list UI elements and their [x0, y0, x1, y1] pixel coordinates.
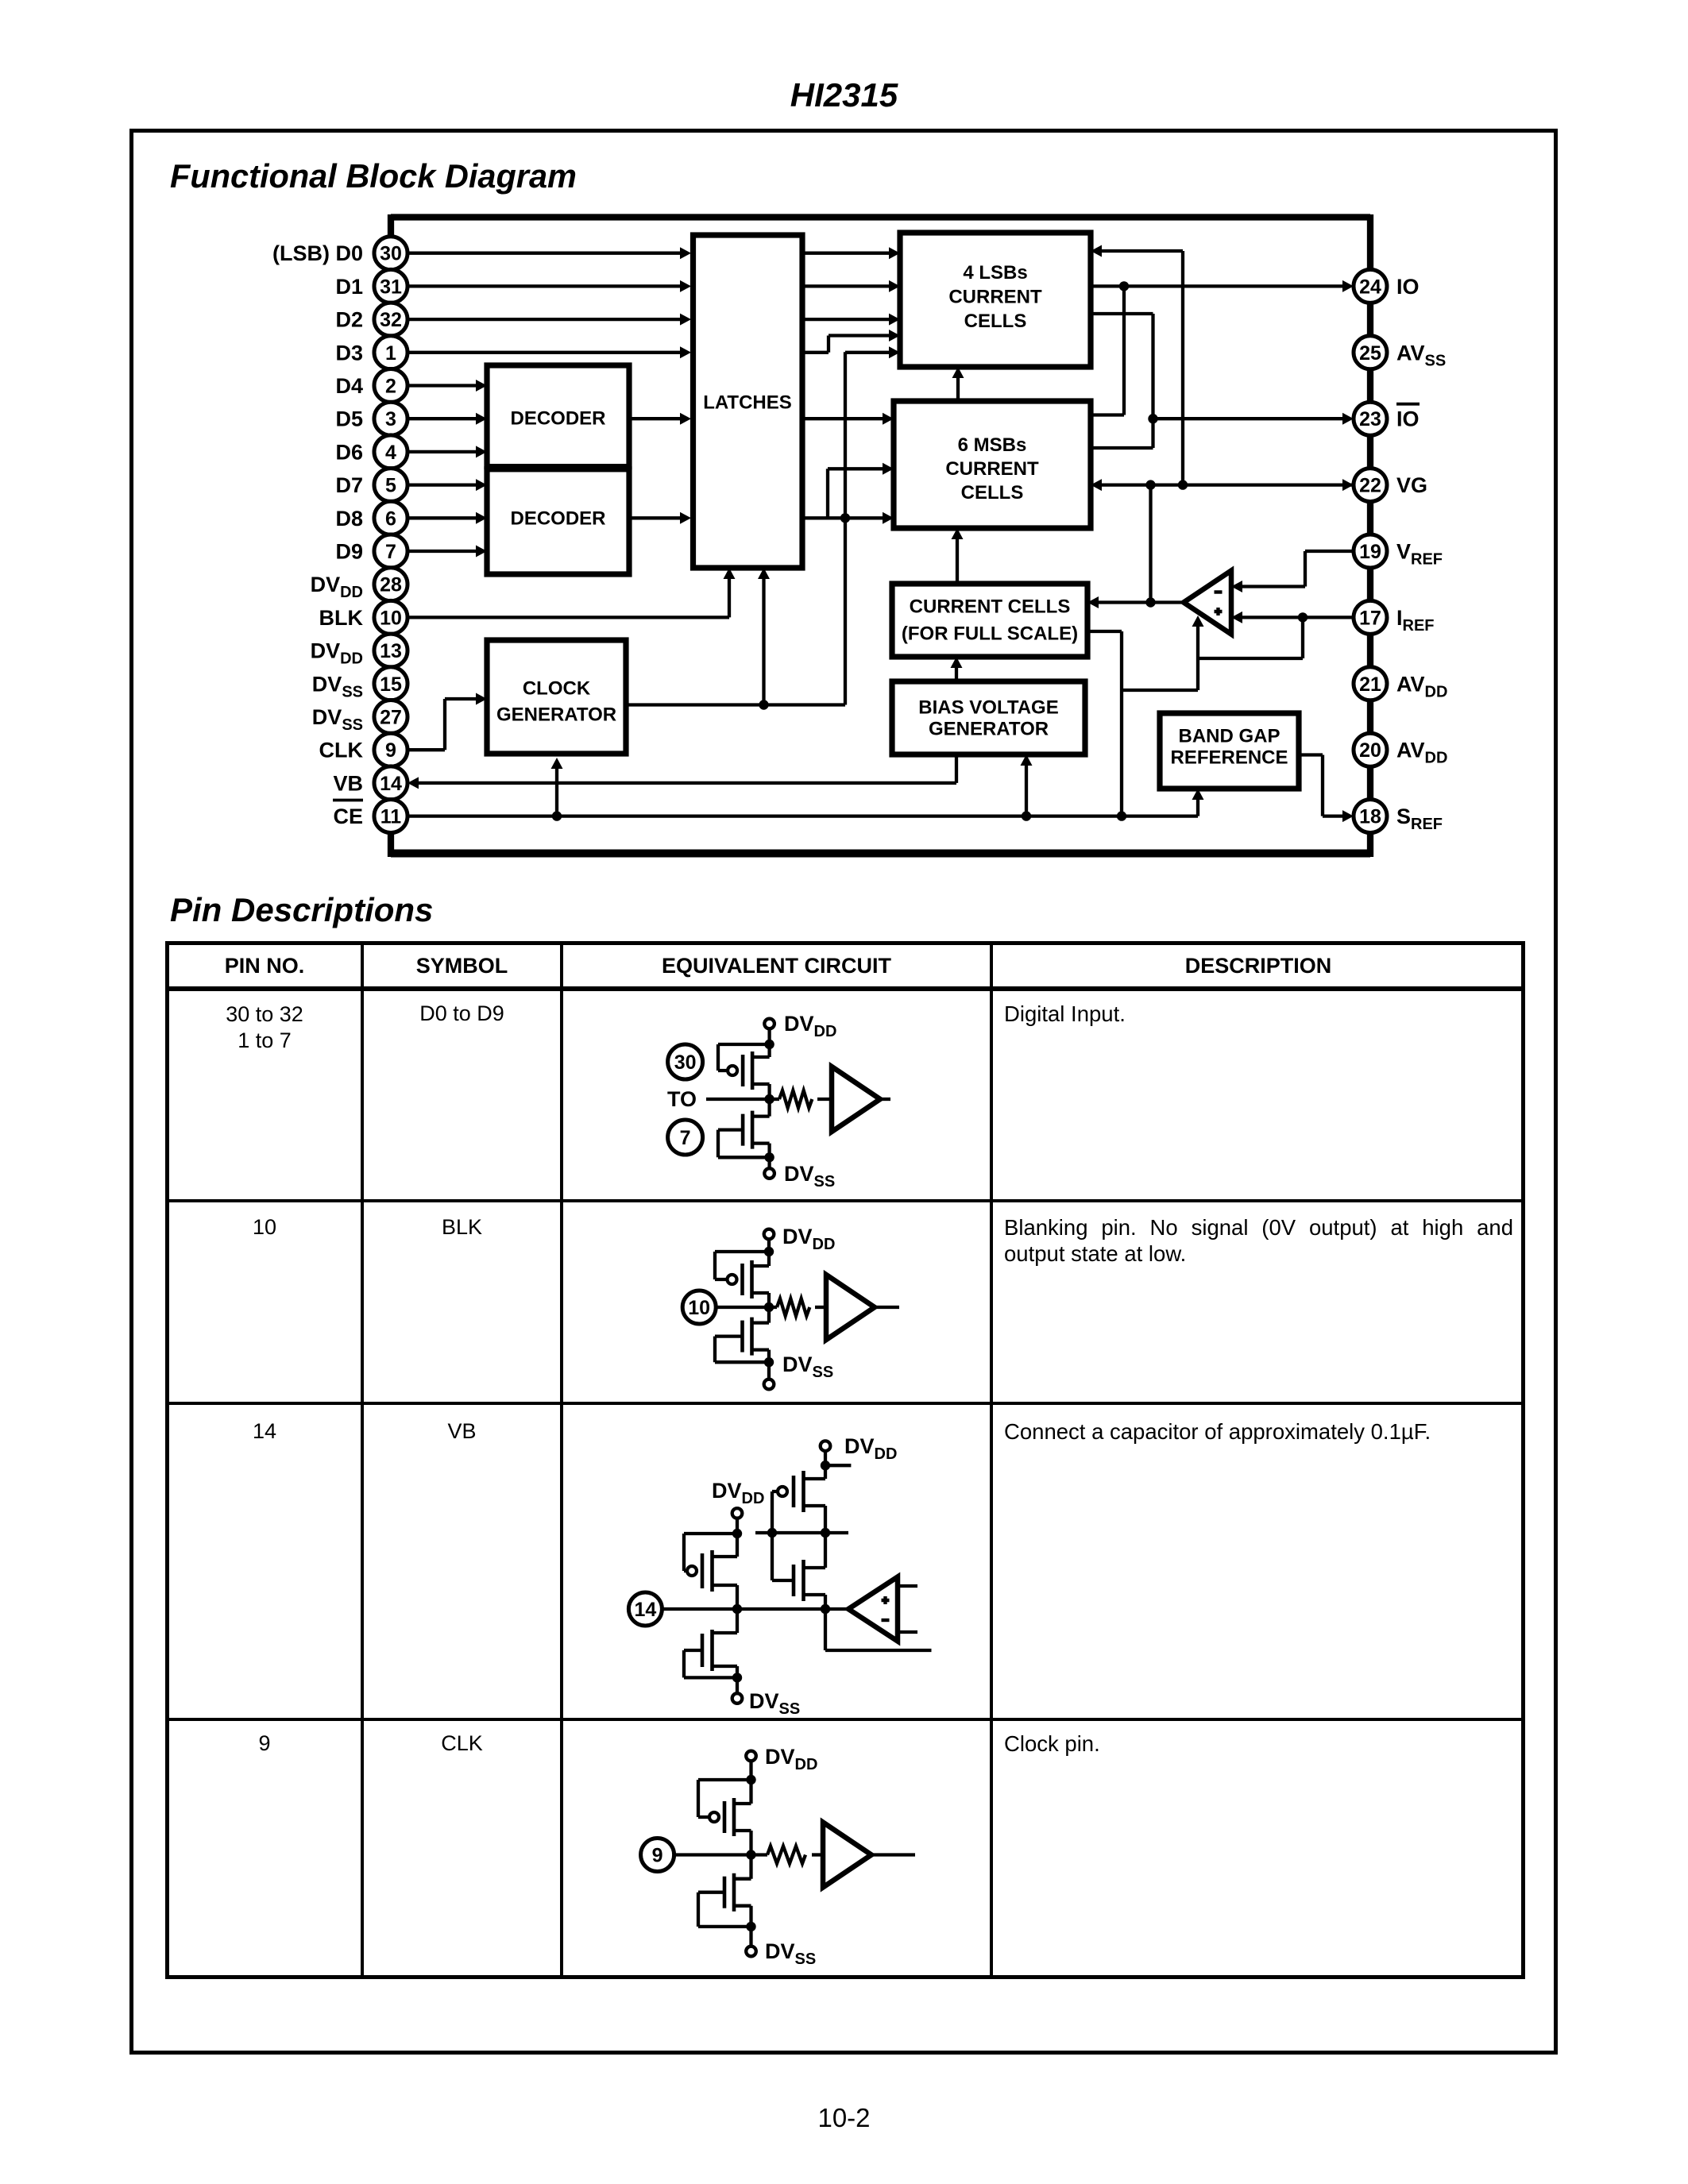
block BAND GAP REFERENCE — [1160, 713, 1299, 789]
cell description Digital Input — [1004, 1001, 1514, 1028]
pin 6 circle — [374, 501, 408, 534]
junction VG line A — [1145, 480, 1155, 489]
svg-text:27: 27 — [380, 707, 402, 729]
table row separator 1 — [165, 1199, 1525, 1202]
junction IREF line — [1298, 612, 1308, 622]
svg-text:1: 1 — [385, 342, 396, 365]
pin 31 circle — [374, 269, 408, 303]
pin 20 circle — [1354, 733, 1387, 766]
wire IO branch to 6 MSBs — [1091, 286, 1124, 415]
cell symbol BLK — [362, 1215, 562, 1240]
pin 15 circle — [374, 667, 408, 700]
table header EQUIVALENT CIRCUIT — [562, 954, 991, 978]
pin 4 circle — [374, 435, 408, 469]
pin 3 circle — [374, 402, 408, 435]
wire left bottom bus stub — [388, 831, 394, 857]
svg-text:CURRENT: CURRENT — [945, 458, 1039, 480]
wire op-amp input stubs row3 — [898, 1586, 917, 1632]
svg-text:CURRENT: CURRENT — [948, 287, 1042, 308]
svg-text:D1: D1 — [335, 275, 363, 299]
svg-text:CLK: CLK — [319, 739, 364, 762]
wire IREF pin 17 to op-amp non-inverting input — [1242, 615, 1354, 619]
table column divider 1 — [361, 941, 364, 1979]
transistor NMOS — [734, 1855, 751, 1879]
wire BLK to latches — [408, 579, 729, 617]
heading Pin Descriptions — [170, 891, 433, 929]
pin 32 circle — [374, 303, 408, 336]
transistor PMOS — [746, 1751, 756, 1761]
block DECODER 1 — [487, 365, 629, 467]
wire VG branch up to 4 LSBs — [1102, 251, 1183, 485]
block LATCHES — [693, 235, 803, 568]
svg-text:DVDD: DVDD — [765, 1745, 817, 1773]
svg-text:DVSS: DVSS — [312, 705, 363, 734]
junction IO line — [1119, 281, 1129, 291]
pin 18 circle — [1354, 800, 1387, 833]
svg-text:10: 10 — [380, 607, 402, 629]
wire CLK pin to clock generator — [408, 699, 476, 750]
junction gate rail left — [767, 1528, 777, 1538]
wire D2 to latches — [408, 318, 680, 321]
svg-text:AVDD: AVDD — [1396, 672, 1447, 700]
op-amp row3 — [848, 1577, 898, 1642]
block BIAS VOLTAGE GENERATOR — [892, 681, 1085, 754]
wire clock line into 4 LSBs — [845, 351, 889, 354]
svg-text:CELLS: CELLS — [964, 311, 1027, 332]
svg-text:19: 19 — [1359, 541, 1381, 563]
junction op-amp output line — [1145, 597, 1155, 607]
block 6 MSBs CURRENT CELLS — [894, 401, 1091, 528]
pin 10 circle (table) — [682, 1291, 716, 1324]
wire latch out D3 to 4 LSBs (jog) — [802, 336, 889, 353]
transistor NMOS — [752, 1307, 770, 1323]
pin 23 circle — [1354, 402, 1387, 435]
cell description Clock pin — [1004, 1731, 1514, 1758]
table header separator — [165, 986, 1525, 991]
wire latch out to 6 MSBs row5 — [802, 417, 883, 420]
junction clock line to latches — [759, 700, 768, 709]
svg-text:DVDD: DVDD — [712, 1479, 764, 1507]
pin 14 circle (table) — [628, 1592, 662, 1626]
wire branch to op-amp bias input — [1122, 627, 1198, 690]
junction gate rail right — [821, 1528, 830, 1538]
page number 10-2 — [0, 2103, 1688, 2133]
pin 21 circle — [1354, 667, 1387, 700]
wire latch out D1 to 4 LSBs — [802, 284, 889, 287]
svg-text:VG: VG — [1396, 473, 1427, 497]
pin 5 circle — [374, 469, 408, 502]
svg-text:25: 25 — [1359, 342, 1381, 365]
table left border — [165, 941, 169, 1979]
svg-text:AVDD: AVDD — [1396, 739, 1447, 767]
svg-text:6 MSBs: 6 MSBs — [958, 434, 1027, 456]
pin 17 circle — [1354, 600, 1387, 634]
wire 4 LSBs output to pin 24 IO — [1091, 284, 1342, 287]
wire VG line from pin 22 — [1102, 483, 1354, 486]
svg-text:IO: IO — [1396, 407, 1420, 431]
junction clock line row8 — [840, 513, 850, 523]
svg-text:17: 17 — [1359, 607, 1381, 629]
svg-text:9: 9 — [385, 739, 396, 762]
svg-text:9: 9 — [652, 1845, 663, 1867]
svg-text:CE: CE — [333, 805, 363, 828]
svg-text:4: 4 — [385, 442, 396, 464]
pin 24 circle — [1354, 269, 1387, 303]
svg-text:5: 5 — [385, 475, 396, 497]
transistor PMOS current mirror row3 — [821, 1441, 831, 1451]
svg-text:14: 14 — [634, 1599, 656, 1621]
table header PIN NO. — [167, 954, 362, 978]
svg-text:TO: TO — [667, 1087, 697, 1111]
wire right pin chain — [1367, 214, 1373, 857]
heading Functional Block Diagram — [170, 157, 577, 195]
wire bottom bus — [391, 850, 1370, 858]
wire D6 to decoder 1 — [408, 450, 476, 453]
cell pin numbers 30 to 32 / 1 to 7 — [167, 1001, 362, 1053]
buffer amplifier row4 — [823, 1823, 871, 1888]
svg-text:CLOCK: CLOCK — [523, 678, 591, 700]
wire BLK input — [716, 1306, 769, 1309]
wire clock generator output — [626, 352, 845, 704]
buffer amplifier row2 — [826, 1275, 875, 1340]
wire 6 MSBs to 4 LSBs — [956, 378, 960, 401]
svg-text:GENERATOR: GENERATOR — [496, 704, 616, 726]
wire CE branch to clock generator — [555, 769, 558, 816]
svg-text:D9: D9 — [335, 540, 363, 564]
resistor R row1 — [770, 1098, 779, 1101]
wire D1 to latches — [408, 284, 680, 287]
svg-text:D5: D5 — [335, 407, 363, 431]
wire VG branch down to op-amp output line — [1149, 485, 1152, 603]
wire full scale cells to 6 MSBs — [956, 539, 959, 584]
wire CE line — [408, 814, 1198, 817]
svg-text:REFERENCE: REFERENCE — [1170, 747, 1288, 769]
wire CE branch to bias voltage generator — [1025, 766, 1028, 816]
svg-text:(LSB) D0: (LSB) D0 — [272, 241, 363, 265]
pin 30 circle (table) — [668, 1044, 703, 1079]
svg-text:30: 30 — [674, 1051, 697, 1074]
svg-text:D6: D6 — [335, 440, 363, 464]
svg-text:SREF: SREF — [1396, 805, 1443, 833]
pin 2 circle — [374, 369, 408, 403]
svg-text:DVSS: DVSS — [749, 1689, 800, 1718]
node input row4 — [746, 1850, 755, 1859]
wire 4 LSBs second output link — [1091, 314, 1153, 448]
pin 10 circle — [374, 600, 408, 634]
wire VB line from bias voltage generator to pin 14 — [419, 754, 956, 783]
table row separator 2 — [165, 1402, 1525, 1405]
wire decoder 2 output to latches — [629, 516, 680, 519]
svg-text:21: 21 — [1359, 673, 1381, 696]
svg-text:D3: D3 — [335, 341, 363, 365]
cell symbol D0 to D9 — [362, 1001, 562, 1026]
pin 25 circle — [1354, 336, 1387, 369]
junction VG line B — [1178, 480, 1188, 489]
svg-text:23: 23 — [1359, 408, 1381, 430]
pin 1 circle — [374, 336, 408, 369]
svg-text:6: 6 — [385, 507, 396, 530]
pin 22 circle — [1354, 469, 1387, 502]
svg-text:(FOR FULL SCALE): (FOR FULL SCALE) — [902, 623, 1078, 645]
wire decoder 1 output to latches — [629, 417, 680, 420]
wire bias voltage generator to full scale cells — [955, 668, 958, 681]
transistor NMOS — [752, 1099, 770, 1117]
pin 7 circle — [374, 534, 408, 568]
transistor PMOS — [764, 1019, 774, 1029]
svg-text:LATCHES: LATCHES — [703, 392, 792, 414]
table column divider 3 — [990, 941, 993, 1979]
wire latch out D2 to 4 LSBs — [802, 318, 889, 321]
pin 27 circle — [374, 700, 408, 734]
wire D4 to decoder 1 — [408, 384, 476, 387]
cell pin number 9 — [167, 1731, 362, 1756]
svg-text:BLK: BLK — [319, 606, 364, 630]
cell description Blanking pin — [1004, 1215, 1513, 1267]
table bottom border — [165, 1975, 1525, 1979]
cell description Connect a capacitor — [1004, 1419, 1514, 1445]
wire top bus — [391, 214, 1370, 220]
cell pin number 14 — [167, 1419, 362, 1444]
svg-text:18: 18 — [1359, 806, 1381, 828]
table header SYMBOL — [362, 954, 562, 978]
table top border — [165, 941, 1525, 945]
wire D5 to decoder 1 — [408, 417, 476, 420]
pin 19 circle — [1354, 534, 1387, 568]
svg-text:CURRENT CELLS: CURRENT CELLS — [910, 596, 1071, 618]
svg-text:32: 32 — [380, 309, 402, 331]
svg-text:2: 2 — [385, 376, 396, 398]
junction IO-bar line — [1148, 414, 1157, 423]
transistor NMOS row3 — [713, 1609, 738, 1633]
svg-text:GENERATOR: GENERATOR — [929, 719, 1049, 740]
wire clock to latches bottom — [762, 579, 765, 705]
wire D0 to latches — [408, 252, 680, 255]
wire CE branch to band gap reference — [1196, 800, 1199, 816]
svg-text:DECODER: DECODER — [510, 408, 605, 430]
resistor R row2 — [769, 1306, 777, 1309]
svg-text:DECODER: DECODER — [510, 508, 605, 530]
wire branch to IREF line — [1198, 617, 1303, 658]
node input row2 — [764, 1302, 774, 1312]
wire to pin 23 IO-bar — [1153, 417, 1343, 420]
node VB left — [732, 1604, 742, 1614]
cell symbol CLK — [362, 1731, 562, 1756]
wire D8 to decoder 2 — [408, 516, 476, 519]
wire latch out jog to 6 MSBs mid — [828, 469, 883, 518]
svg-text:VREF: VREF — [1396, 540, 1443, 569]
block DECODER 2 — [487, 469, 629, 574]
svg-text:DVSS: DVSS — [312, 672, 363, 700]
svg-text:4 LSBs: 4 LSBs — [963, 262, 1027, 284]
wire VB node line — [662, 1607, 848, 1611]
wire full scale cells output down to CE line — [1087, 631, 1122, 816]
block CLOCK GENERATOR — [487, 640, 626, 754]
svg-text:BAND GAP: BAND GAP — [1178, 726, 1280, 747]
junction on CE line at clock generator — [552, 811, 562, 820]
table row separator 3 — [165, 1718, 1525, 1721]
cell pin number 10 — [167, 1215, 362, 1240]
svg-text:DVDD: DVDD — [784, 1012, 836, 1040]
svg-text:DVDD: DVDD — [782, 1225, 835, 1253]
transistor PMOS lower row3 — [772, 1579, 794, 1582]
op-amp U1 — [1184, 571, 1231, 635]
buffer amplifier row1 — [832, 1067, 880, 1132]
pin 11 circle — [374, 800, 408, 833]
svg-text:D4: D4 — [335, 374, 363, 398]
transistor PMOS diode-connected row3 — [732, 1508, 743, 1518]
pin 9 circle — [374, 733, 408, 766]
svg-text:D2: D2 — [335, 308, 363, 332]
wire op-amp output to full scale cells — [1099, 600, 1181, 604]
svg-text:11: 11 — [380, 806, 402, 828]
node input row1 — [764, 1094, 774, 1104]
node VB right — [821, 1604, 830, 1614]
svg-text:7: 7 — [680, 1127, 691, 1149]
svg-text:24: 24 — [1359, 276, 1381, 298]
svg-text:3: 3 — [385, 408, 396, 430]
pin 30 circle — [374, 237, 408, 270]
svg-text:DVDD: DVDD — [844, 1434, 897, 1463]
resistor R row4 — [751, 1853, 768, 1856]
svg-text:DVSS: DVSS — [782, 1352, 833, 1381]
svg-text:DVSS: DVSS — [784, 1162, 835, 1190]
wire D7 to decoder 2 — [408, 483, 476, 486]
block CURRENT CELLS FOR FULL SCALE — [892, 584, 1087, 657]
svg-text:14: 14 — [380, 773, 402, 795]
wire latch out to 6 MSBs row8 — [802, 516, 883, 519]
svg-text:10: 10 — [688, 1297, 710, 1319]
svg-text:AVSS: AVSS — [1396, 341, 1446, 369]
wire TO input — [706, 1098, 770, 1101]
svg-text:22: 22 — [1359, 475, 1381, 497]
junction on CE line at bias voltage generator — [1022, 811, 1031, 820]
wire CLK input — [674, 1853, 751, 1856]
table right border — [1521, 941, 1525, 1979]
junction full scale output on CE line — [1117, 811, 1126, 820]
overline CE — [333, 799, 363, 802]
svg-text:IO: IO — [1396, 275, 1420, 299]
page border frame — [129, 129, 1558, 2055]
svg-text:VB: VB — [333, 771, 363, 795]
svg-text:D7: D7 — [335, 473, 363, 497]
svg-text:28: 28 — [380, 574, 402, 596]
overline IO-bar — [1396, 403, 1420, 406]
pin 7 circle (table) — [668, 1120, 703, 1155]
wire VREF pin 19 to op-amp inverting input — [1242, 551, 1354, 587]
wire left bus stub — [388, 214, 394, 238]
svg-text:7: 7 — [385, 541, 396, 563]
svg-text:D8: D8 — [335, 507, 363, 531]
svg-text:BIAS VOLTAGE: BIAS VOLTAGE — [918, 697, 1058, 719]
table column divider 2 — [560, 941, 563, 1979]
cell symbol VB — [362, 1419, 562, 1444]
pin 13 circle — [374, 634, 408, 667]
svg-text:31: 31 — [380, 276, 402, 298]
svg-text:CELLS: CELLS — [961, 482, 1024, 504]
svg-text:15: 15 — [380, 673, 402, 696]
svg-text:20: 20 — [1359, 739, 1381, 762]
pin 9 circle (table) — [641, 1839, 674, 1872]
svg-text:30: 30 — [380, 243, 402, 265]
wire D3 to latches — [408, 351, 680, 354]
table header DESCRIPTION — [991, 954, 1525, 978]
block 4 LSBs CURRENT CELLS — [900, 233, 1091, 367]
wire gate rail row3 — [755, 1531, 848, 1534]
transistor PMOS — [764, 1229, 774, 1240]
wire D9 to decoder 2 — [408, 550, 476, 553]
svg-text:DVDD: DVDD — [311, 639, 363, 668]
pin 28 circle — [374, 568, 408, 601]
wire latch out D0 to 4 LSBs — [802, 252, 889, 255]
svg-text:IREF: IREF — [1396, 606, 1435, 635]
pin 14 circle — [374, 766, 408, 800]
page title HI2315 — [0, 76, 1688, 114]
wire op-amp feedback row3 — [825, 1609, 932, 1650]
svg-text:DVSS: DVSS — [765, 1939, 816, 1968]
svg-text:DVDD: DVDD — [311, 573, 363, 601]
wire band gap reference to pin 18 SREF — [1299, 755, 1342, 816]
svg-text:13: 13 — [380, 640, 402, 662]
